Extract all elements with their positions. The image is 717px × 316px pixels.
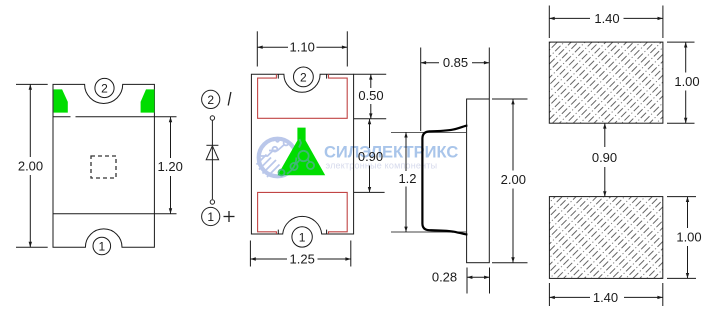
pin 2 callout (symbol)	[202, 90, 220, 108]
svg-text:1.00: 1.00	[674, 74, 699, 89]
solder pad 2 (top)	[549, 42, 663, 123]
svg-text:0.28: 0.28	[432, 270, 457, 285]
dimension 1.20 (top view inner)	[154, 117, 176, 214]
watermark logo ring	[257, 139, 297, 177]
dimension 1.40 top	[549, 6, 663, 39]
pin 2 callout (top view)	[95, 78, 114, 97]
svg-text:1: 1	[98, 239, 105, 253]
node bottom	[210, 200, 214, 204]
svg-text:2.00: 2.00	[18, 158, 43, 173]
pin 2 callout (front view)	[294, 67, 314, 87]
dimension 0.90 gap	[604, 123, 606, 196]
wire	[211, 120, 213, 199]
dimension 2.00 (side view)	[492, 99, 528, 263]
svg-text:0.85: 0.85	[443, 55, 468, 70]
dimension 0.28	[467, 268, 490, 294]
svg-text:СИЛЭЛЕКТРИКС: СИЛЭЛЕКТРИКС	[324, 144, 458, 162]
svg-text:0.90: 0.90	[358, 149, 383, 164]
svg-text:1.40: 1.40	[593, 290, 618, 305]
dashed center pad	[91, 156, 116, 178]
electrode boundary line top	[53, 116, 71, 118]
svg-text:2: 2	[300, 70, 307, 84]
dimension 0.90 (front view)	[354, 119, 385, 193]
pin 1 callout (front view)	[292, 227, 312, 247]
dimension 0.85	[421, 48, 490, 132]
svg-text:0.50: 0.50	[358, 88, 383, 103]
svg-text:1: 1	[299, 230, 306, 244]
green LED chip and wire	[278, 128, 326, 176]
node top	[210, 116, 214, 120]
dimension 0.50	[354, 74, 387, 119]
plus mark	[224, 211, 235, 222]
dimension 1.40 bottom	[549, 283, 662, 306]
svg-text:1: 1	[207, 210, 214, 224]
electrode boundary line bottom	[53, 213, 154, 215]
svg-text:1.10: 1.10	[290, 40, 315, 55]
svg-text:2: 2	[101, 81, 108, 95]
svg-text:1.20: 1.20	[158, 159, 183, 174]
package outline (front view)	[251, 74, 353, 234]
pin 1 callout (symbol)	[202, 207, 220, 225]
dimension 1.2	[405, 132, 407, 232]
svg-text:1.25: 1.25	[290, 251, 315, 266]
package body (side view)	[467, 99, 490, 263]
svg-text:2.00: 2.00	[501, 172, 526, 187]
cathode green mark right	[141, 89, 155, 112]
svg-text:1.2: 1.2	[398, 171, 416, 186]
cathode green mark left	[54, 89, 68, 112]
electrode bottom (red)	[258, 192, 348, 234]
svg-text:1.40: 1.40	[594, 11, 619, 26]
solder pad 1 (bottom)	[549, 197, 662, 279]
dimension 1.25	[250, 241, 350, 267]
electrode top (red)	[258, 74, 348, 118]
dimension 2.00 (top view height)	[16, 84, 48, 247]
svg-text:0.90: 0.90	[592, 150, 617, 165]
diode D1	[206, 145, 218, 160]
dimension 1.00 bottom pad	[667, 197, 696, 279]
package body outline (top view)	[53, 84, 154, 247]
svg-text:2: 2	[207, 93, 214, 107]
watermark traces over chip	[279, 139, 315, 176]
mold step marks top	[278, 74, 326, 234]
svg-text:1.00: 1.00	[676, 230, 701, 245]
lens extension lines thin	[391, 132, 467, 232]
pin 1 callout (top view)	[93, 237, 111, 255]
dimension 1.00 top pad	[667, 42, 695, 123]
dimension 1.10	[257, 31, 347, 66]
minus mark	[228, 92, 231, 106]
epoxy lens profile	[422, 125, 467, 234]
